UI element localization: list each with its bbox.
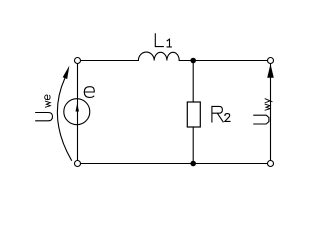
source e circle U1 xyxy=(64,99,90,125)
label Uwe : U glyph rotated xyxy=(36,113,53,121)
wire inductor to right terminal xyxy=(179,60,270,62)
arrow arc Uwe xyxy=(57,78,71,160)
terminal bottom-left xyxy=(75,161,81,167)
source arrowhead xyxy=(76,103,80,111)
label R2 : R glyph xyxy=(212,106,223,122)
resistor R2 xyxy=(187,102,200,127)
label Uwy : U glyph rotated xyxy=(254,115,269,124)
label R2 : subscript 2 glyph xyxy=(225,114,230,122)
wire right branch xyxy=(270,61,272,161)
terminal bottom-right xyxy=(268,161,274,167)
label L1 : subscript 1 glyph xyxy=(167,39,171,47)
wire middle branch bottom xyxy=(192,127,194,164)
arrowhead Uwe xyxy=(63,66,70,80)
label L1 : L glyph xyxy=(155,34,163,47)
wire bottom rail xyxy=(78,163,271,165)
wire middle branch top xyxy=(192,61,194,103)
wire top rail xyxy=(78,60,139,62)
label Uwe : subscript we xyxy=(45,95,51,107)
wire left branch xyxy=(77,61,79,164)
label Uwy : subscript wy xyxy=(265,99,273,111)
junction bottom node xyxy=(190,161,196,167)
junction top node xyxy=(190,58,196,64)
arrowhead Uwy xyxy=(267,64,274,78)
inductor L1 xyxy=(138,52,179,60)
terminal top-left xyxy=(75,58,81,64)
terminal top-right xyxy=(268,58,274,64)
label e glyph xyxy=(84,87,94,98)
